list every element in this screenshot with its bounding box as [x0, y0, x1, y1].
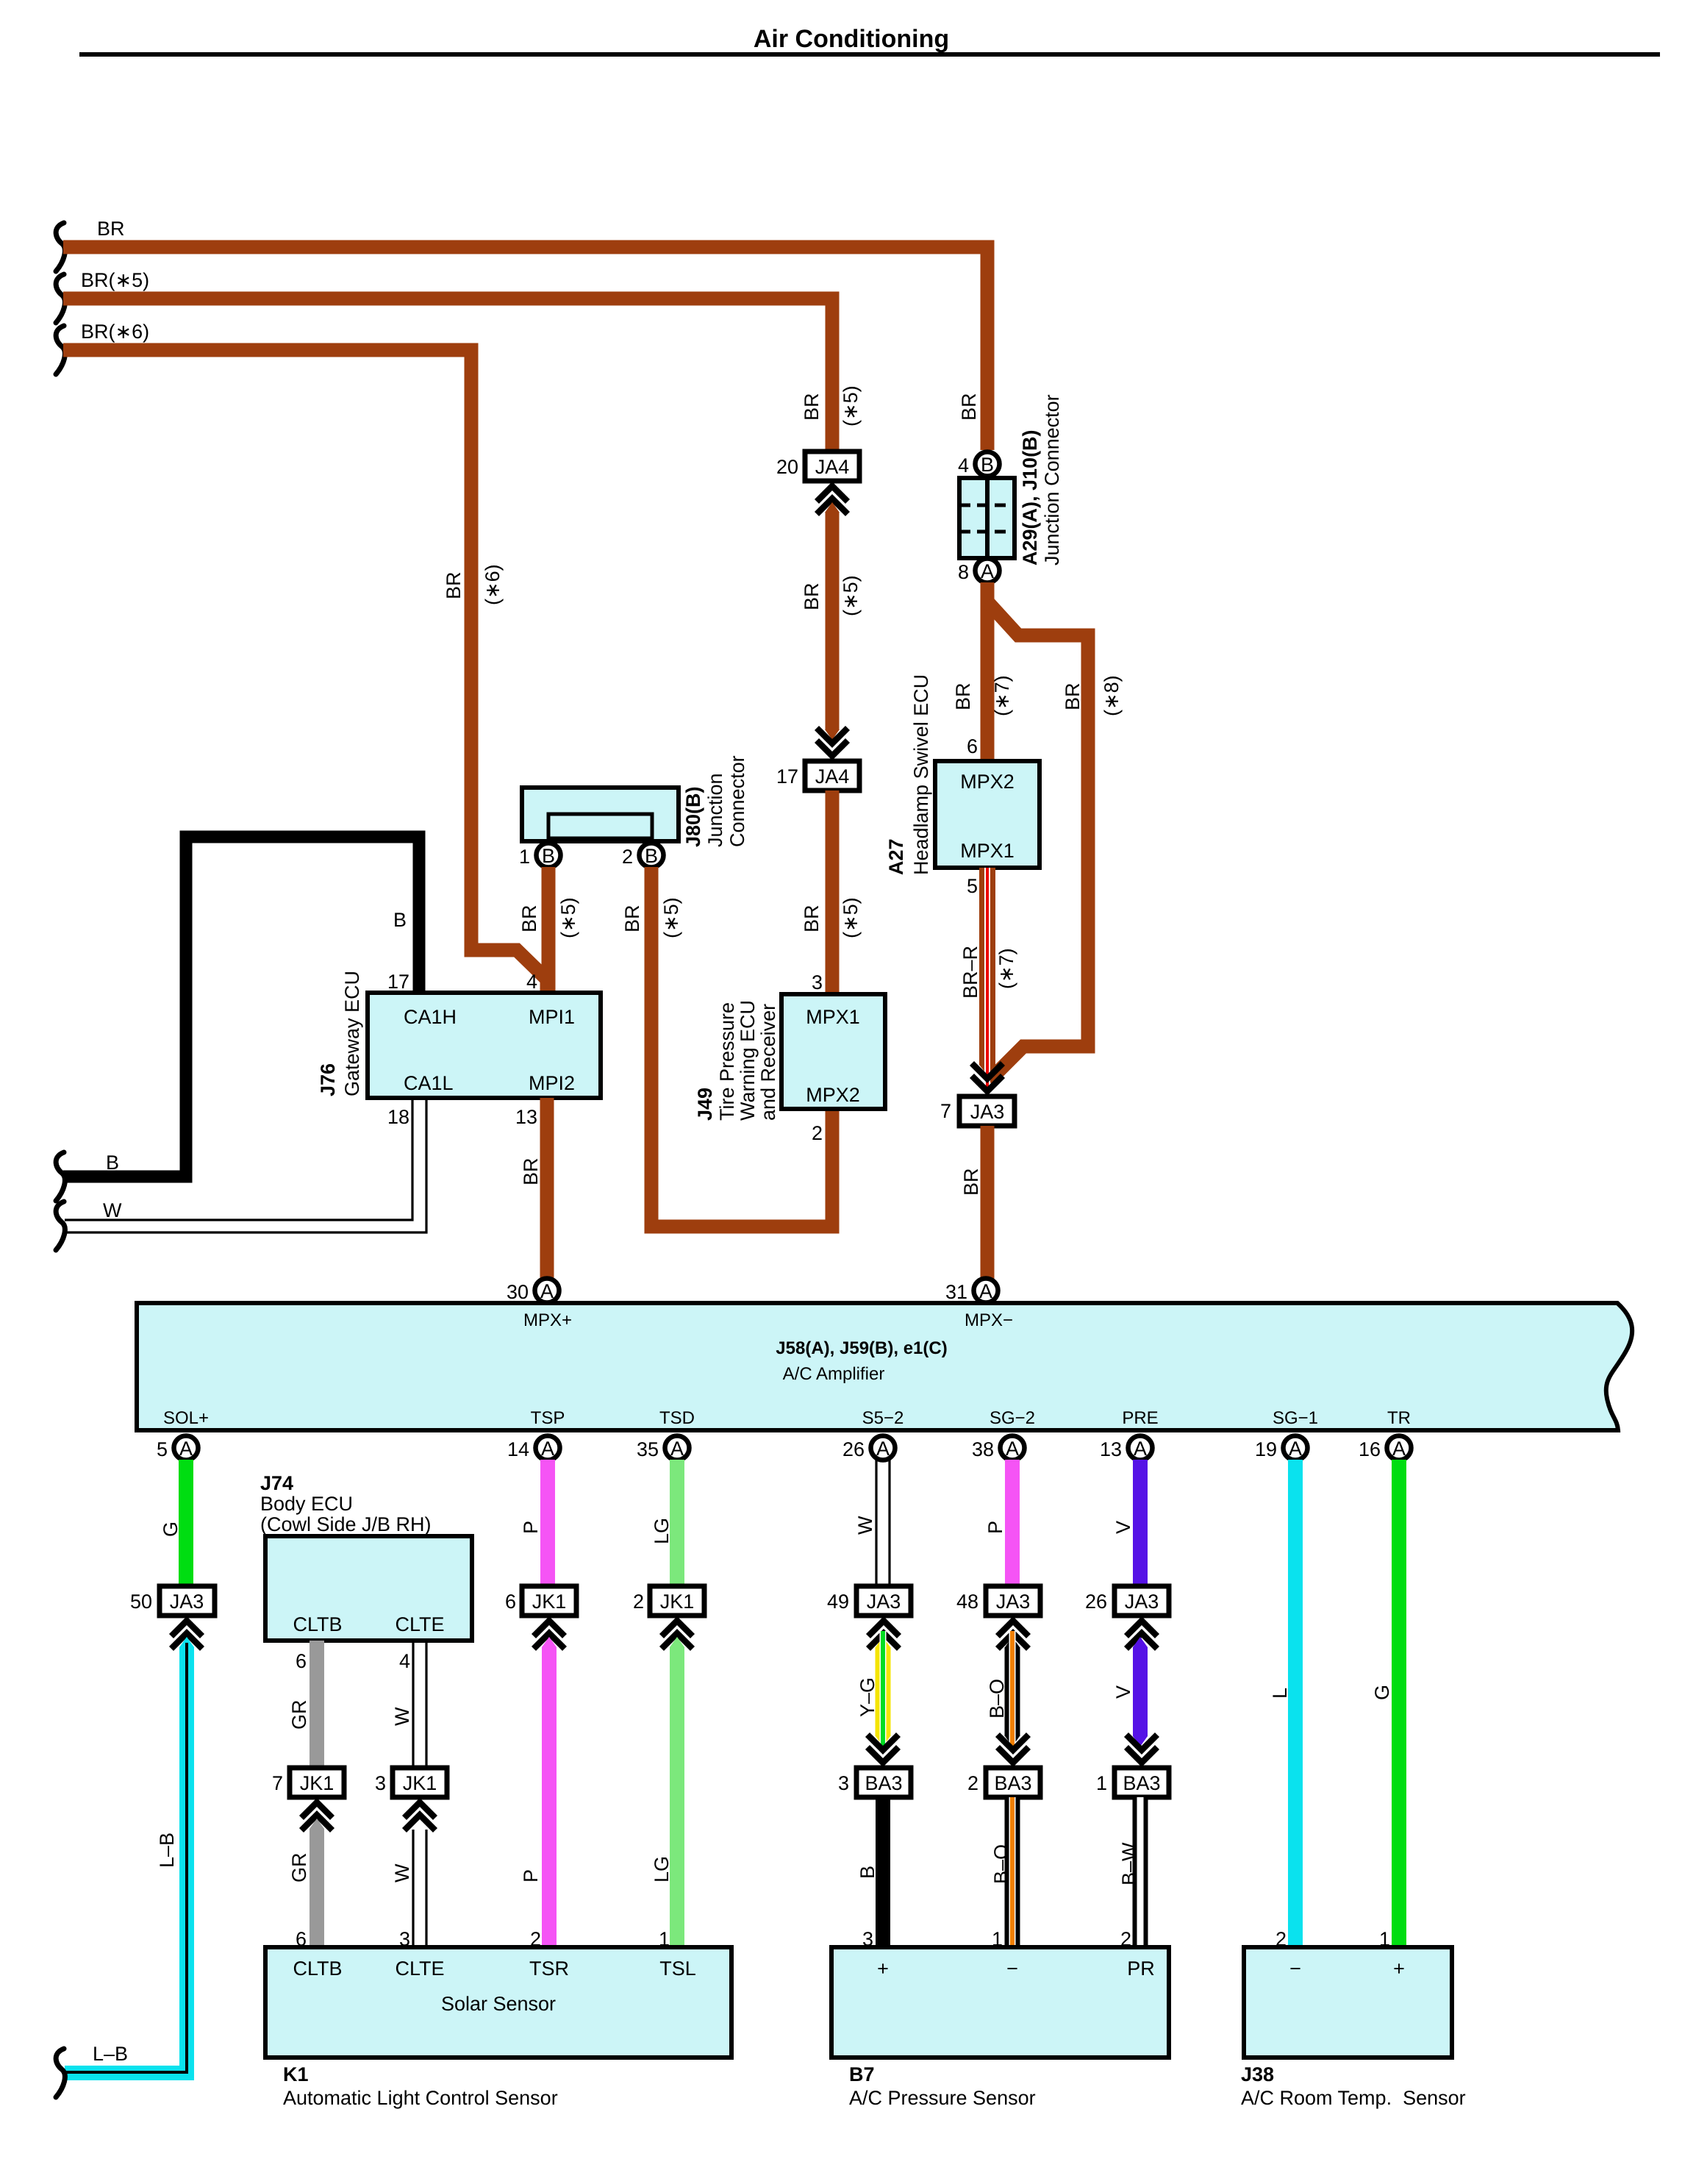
svg-text:A27: A27: [885, 838, 907, 875]
chevron up below JK1 7: [301, 1802, 332, 1830]
svg-text:BR: BR: [518, 904, 540, 932]
svg-text:and Receiver: and Receiver: [757, 1004, 779, 1121]
svg-text:A/C Amplifier: A/C Amplifier: [783, 1364, 885, 1384]
wire BR(*8) bypass loop around A27: [987, 602, 1088, 1081]
svg-text:J80(B): J80(B): [682, 786, 704, 847]
wire P from pin 14A to JK1 6: [540, 1460, 555, 1586]
wire break brace W: [56, 1202, 65, 1250]
chevron up below JA3 50: [171, 1621, 202, 1649]
svg-text:JK1: JK1: [403, 1772, 437, 1794]
svg-text:LG: LG: [651, 1518, 673, 1544]
svg-text:MPX2: MPX2: [806, 1084, 860, 1106]
wire BR(*6) from left joining MPI1 pin 4 wire: [63, 350, 547, 993]
svg-text:4: 4: [958, 454, 969, 477]
svg-text:W: W: [103, 1199, 122, 1221]
wire break brace L-B: [56, 2049, 65, 2097]
svg-text:P: P: [520, 1521, 542, 1534]
svg-text:B–O: B–O: [990, 1844, 1012, 1884]
wire BR from J80 2B down around to J49 MPX2 pin 2: [651, 867, 832, 1227]
svg-text:5: 5: [157, 1438, 168, 1460]
svg-text:A: A: [1392, 1438, 1406, 1460]
chevron up below JK1 6: [534, 1621, 565, 1649]
wire break brace BR(*6): [56, 326, 65, 374]
svg-text:6: 6: [967, 735, 978, 757]
chevron up below JA3 48: [998, 1621, 1028, 1649]
wire G from pin 5A to JA3 50: [179, 1460, 193, 1586]
chevron up below JA3 49: [868, 1621, 899, 1649]
wire break brace B: [56, 1152, 65, 1201]
J80 pin 2 circle B: [640, 843, 664, 868]
svg-text:+: +: [877, 1958, 889, 1980]
svg-text:A: A: [541, 1438, 554, 1460]
ECU J74 Body ECU box: [265, 1536, 472, 1641]
svg-text:(∗7): (∗7): [991, 675, 1013, 716]
svg-text:BR: BR: [952, 682, 974, 710]
wire W from JK1 3 to solar sensor CLTE pin 3: [413, 1830, 426, 1947]
svg-text:P: P: [520, 1869, 542, 1883]
junction connector A29(A) J10(B) pin 4 circle B: [976, 452, 1000, 477]
wire L-B from JA3 50 to left exit: [179, 1637, 194, 1647]
wire BR(*5) from JA4 17 to J49 MPX1 pin 3: [826, 791, 840, 994]
svg-text:6: 6: [505, 1591, 516, 1613]
svg-text:JK1: JK1: [660, 1591, 695, 1613]
svg-text:30: 30: [507, 1281, 529, 1303]
svg-text:2: 2: [622, 846, 633, 868]
wire V from pin 13A to JA3 26: [1133, 1460, 1148, 1586]
svg-text:MPX2: MPX2: [960, 771, 1015, 793]
svg-text:BR: BR: [621, 904, 643, 932]
sensor J38 A/C Room Temp Sensor box: [1244, 1947, 1452, 2058]
svg-text:J74: J74: [260, 1472, 293, 1494]
svg-text:GR: GR: [288, 1853, 310, 1883]
wire W from pin 26A to JA3 49: [876, 1460, 890, 1586]
svg-text:JA3: JA3: [867, 1591, 901, 1613]
svg-text:BR(∗6): BR(∗6): [81, 321, 149, 343]
svg-text:L–B: L–B: [156, 1833, 178, 1868]
svg-text:48: 48: [956, 1591, 978, 1613]
amplifier circle pin 5 A: [174, 1436, 198, 1460]
wire Y-G from JA3 49 to BA3 3: [876, 1637, 890, 1647]
svg-text:Y–G: Y–G: [856, 1677, 879, 1717]
svg-text:B–O: B–O: [986, 1679, 1008, 1719]
wire BR-R from A27 MPX1 pin 5 to JA3 7: [979, 868, 995, 1065]
svg-text:6: 6: [296, 1650, 307, 1672]
svg-text:−: −: [1006, 1958, 1018, 1980]
svg-text:2: 2: [812, 1122, 823, 1144]
svg-text:J49: J49: [694, 1088, 716, 1121]
svg-text:A: A: [979, 1280, 992, 1302]
ECU J49 Tire Pressure Warning ECU box: [781, 994, 885, 1109]
svg-text:BR: BR: [801, 393, 823, 421]
title underline: [79, 52, 1660, 57]
svg-text:G: G: [1371, 1685, 1393, 1700]
svg-text:4: 4: [526, 971, 537, 993]
svg-text:BR–R: BR–R: [959, 946, 981, 999]
wire GR from JK1 7 to solar sensor CLTB pin 6: [309, 1819, 324, 1829]
svg-text:SG−1: SG−1: [1273, 1408, 1318, 1428]
chevron down above BA3 3: [867, 1735, 898, 1763]
svg-text:31: 31: [945, 1281, 967, 1303]
svg-text:V: V: [1112, 1521, 1134, 1534]
svg-text:A/C Pressure Sensor: A/C Pressure Sensor: [849, 2087, 1036, 2109]
svg-text:J58(A), J59(B), e1(C): J58(A), J59(B), e1(C): [776, 1338, 947, 1358]
svg-text:(∗5): (∗5): [840, 575, 862, 616]
chevron down above JA3 7: [972, 1063, 1003, 1091]
svg-text:B: B: [106, 1152, 119, 1174]
svg-text:18: 18: [387, 1106, 409, 1128]
svg-text:1: 1: [1096, 1772, 1107, 1794]
svg-text:JA4: JA4: [815, 766, 850, 788]
A/C Amplifier box J58: [137, 1303, 1632, 1430]
wire break brace BR(*5): [56, 274, 65, 323]
svg-text:JA3: JA3: [996, 1591, 1031, 1613]
svg-text:2: 2: [967, 1772, 978, 1794]
svg-text:2: 2: [633, 1591, 644, 1613]
svg-text:B: B: [393, 909, 407, 931]
svg-text:Gateway ECU: Gateway ECU: [341, 971, 363, 1096]
junction connector A29/J10 pin 8 circle A: [976, 559, 1000, 583]
svg-text:TSP: TSP: [531, 1408, 565, 1428]
wire G from pin 16A to room temp sensor pin 1: [1392, 1460, 1406, 1948]
svg-text:MPX1: MPX1: [806, 1006, 860, 1028]
svg-text:−: −: [1289, 1958, 1301, 1980]
svg-text:+: +: [1393, 1958, 1405, 1980]
svg-text:W: W: [391, 1863, 413, 1883]
svg-text:J76: J76: [317, 1063, 339, 1096]
svg-text:(∗8): (∗8): [1101, 675, 1123, 716]
wire B-W from BA3 1 to pressure sensor pin 2: [1133, 1797, 1148, 1947]
svg-text:B: B: [645, 845, 658, 867]
svg-text:JA3: JA3: [170, 1591, 204, 1613]
svg-text:MPX−: MPX−: [965, 1310, 1013, 1330]
wire BR from J76 MPI2 pin 13 to amplifier pin 30: [540, 1098, 554, 1283]
svg-text:BR: BR: [960, 1168, 982, 1196]
amplifier circle pin 30 A: [535, 1279, 559, 1303]
black wire B from brace to J76 CA1H pin 17: [63, 837, 419, 1177]
svg-text:Warning ECU: Warning ECU: [737, 1000, 759, 1121]
chevron up below JA3 26: [1126, 1621, 1157, 1649]
amplifier circle pin 31 A: [974, 1279, 998, 1303]
svg-text:4: 4: [399, 1650, 410, 1672]
wire L from pin 19A to room temp sensor pin 2: [1288, 1460, 1303, 1948]
ECU J76 Gateway ECU box: [368, 993, 601, 1098]
svg-text:BR: BR: [97, 218, 125, 240]
wire BR(*5) between JA4 20 and JA4 17: [825, 502, 840, 513]
wire BR(*5) from left to junction connector JA4 pin 20: [63, 299, 832, 452]
svg-text:A: A: [179, 1438, 193, 1460]
svg-text:LG: LG: [651, 1856, 673, 1883]
svg-text:A: A: [981, 560, 994, 582]
svg-text:CLTB: CLTB: [293, 1958, 342, 1980]
svg-text:A: A: [1134, 1438, 1147, 1460]
svg-text:3: 3: [812, 971, 823, 993]
svg-text:A: A: [876, 1438, 890, 1460]
ECU A27 Headlamp Swivel ECU box: [935, 761, 1040, 868]
wire LG from JK1 2 to solar sensor TSL pin 1: [670, 1637, 684, 1647]
chevron down above JA4 17: [817, 728, 848, 756]
svg-text:3: 3: [838, 1772, 849, 1794]
junction connector A29/J10 grid box: [959, 478, 1015, 558]
svg-text:Junction: Junction: [704, 773, 726, 847]
svg-text:26: 26: [842, 1438, 865, 1460]
svg-text:1: 1: [519, 846, 530, 868]
wire P from JK1 6 to solar sensor TSR pin 2: [542, 1637, 557, 1647]
sensor B7 A/C Pressure Sensor box: [831, 1947, 1169, 2058]
svg-text:(∗6): (∗6): [482, 564, 504, 605]
svg-text:A: A: [670, 1438, 684, 1460]
svg-text:TSL: TSL: [659, 1958, 696, 1980]
svg-text:7: 7: [272, 1772, 283, 1794]
amplifier circle pin 16 A: [1387, 1436, 1411, 1460]
svg-text:SG−2: SG−2: [990, 1408, 1035, 1428]
svg-text:Headlamp Swivel ECU: Headlamp Swivel ECU: [910, 674, 932, 875]
svg-text:A: A: [1289, 1438, 1302, 1460]
svg-text:BA3: BA3: [1123, 1772, 1160, 1794]
svg-text:K1: K1: [283, 2063, 309, 2085]
svg-text:PRE: PRE: [1122, 1408, 1158, 1428]
wire GR from J74 CLTB to JK1 7: [309, 1641, 324, 1768]
svg-text:BA3: BA3: [865, 1772, 902, 1794]
svg-text:G: G: [160, 1521, 182, 1537]
svg-text:13: 13: [1100, 1438, 1122, 1460]
svg-text:8: 8: [958, 561, 969, 583]
svg-text:17: 17: [776, 766, 798, 788]
svg-text:Solar Sensor: Solar Sensor: [441, 1993, 556, 2015]
svg-text:JA3: JA3: [970, 1101, 1005, 1123]
svg-text:BR: BR: [801, 904, 823, 932]
chevron up below JA4 20: [817, 486, 848, 514]
wire B from BA3 3 to pressure sensor pin 3: [876, 1797, 890, 1947]
wire BR from A29 pin 8A to A27 MPX2 pin 6: [981, 582, 995, 761]
svg-text:14: 14: [507, 1438, 529, 1460]
amplifier circle pin 19 A: [1284, 1436, 1308, 1460]
svg-text:3: 3: [375, 1772, 386, 1794]
svg-text:A: A: [540, 1280, 554, 1302]
svg-text:13: 13: [515, 1106, 537, 1128]
svg-text:Junction Connector: Junction Connector: [1041, 394, 1063, 565]
svg-text:L–B: L–B: [93, 2043, 128, 2065]
wire V from JA3 26 to BA3 1: [1133, 1637, 1148, 1647]
svg-text:JK1: JK1: [532, 1591, 567, 1613]
svg-text:(∗5): (∗5): [840, 897, 862, 938]
svg-text:50: 50: [130, 1591, 152, 1613]
svg-text:A: A: [1006, 1438, 1019, 1460]
svg-text:16: 16: [1359, 1438, 1381, 1460]
svg-text:MPX1: MPX1: [960, 840, 1015, 862]
svg-text:TR: TR: [1387, 1408, 1411, 1428]
svg-text:CLTE: CLTE: [395, 1613, 444, 1635]
wire BR from JA3 7 to amplifier pin 31: [981, 1126, 995, 1283]
svg-text:19: 19: [1255, 1438, 1277, 1460]
amplifier circle pin 26 A: [871, 1436, 895, 1460]
svg-text:(∗7): (∗7): [995, 948, 1017, 989]
svg-text:JA3: JA3: [1125, 1591, 1159, 1613]
svg-text:CLTB: CLTB: [293, 1613, 342, 1635]
svg-text:P: P: [984, 1521, 1006, 1534]
sensor K1 Solar Sensor box: [265, 1947, 731, 2058]
svg-text:(Cowl Side J/B RH): (Cowl Side J/B RH): [260, 1513, 432, 1535]
svg-text:TSR: TSR: [529, 1958, 569, 1980]
svg-text:BR: BR: [443, 571, 465, 599]
svg-text:S5−2: S5−2: [862, 1408, 904, 1428]
svg-text:BA3: BA3: [994, 1772, 1031, 1794]
svg-text:B: B: [856, 1866, 879, 1879]
svg-text:49: 49: [827, 1591, 849, 1613]
svg-text:(∗5): (∗5): [840, 385, 862, 427]
svg-text:5: 5: [967, 875, 978, 897]
amplifier circle pin 14 A: [536, 1436, 560, 1460]
svg-text:PR: PR: [1127, 1958, 1155, 1980]
svg-text:(∗5): (∗5): [660, 897, 682, 938]
svg-text:A29(A), J10(B): A29(A), J10(B): [1019, 429, 1041, 565]
svg-text:Air Conditioning: Air Conditioning: [754, 25, 949, 53]
white wire W from J76 CA1L pin 18 to left exit: [65, 1098, 426, 1232]
svg-text:B: B: [981, 454, 994, 476]
svg-text:GR: GR: [288, 1700, 310, 1730]
svg-text:JK1: JK1: [300, 1772, 334, 1794]
J80 pin 1 circle B: [537, 843, 561, 868]
svg-text:Connector: Connector: [726, 755, 748, 847]
wire B-O from JA3 48 to BA3 2: [1005, 1637, 1020, 1647]
amplifier circle pin 35 A: [665, 1436, 690, 1460]
svg-text:SOL+: SOL+: [163, 1408, 209, 1428]
svg-text:BR: BR: [801, 582, 823, 610]
chevron up below JK1 2: [662, 1621, 693, 1649]
svg-text:B–W: B–W: [1118, 1842, 1140, 1885]
svg-text:V: V: [1112, 1685, 1134, 1699]
wire break brace BR: [56, 223, 65, 271]
svg-text:CA1H: CA1H: [404, 1006, 457, 1028]
svg-text:CA1L: CA1L: [404, 1072, 454, 1094]
svg-text:B: B: [542, 845, 555, 867]
wire B-O from BA3 2 to pressure sensor pin 1: [1005, 1797, 1020, 1947]
junction connector J80(B) box: [522, 788, 679, 841]
svg-text:7: 7: [940, 1100, 951, 1122]
svg-text:Body ECU: Body ECU: [260, 1493, 353, 1515]
svg-text:J38: J38: [1241, 2063, 1274, 2085]
svg-text:MPI2: MPI2: [529, 1072, 575, 1094]
wire BR from left to junction connector A29 pin 4B: [63, 247, 987, 450]
svg-text:W: W: [854, 1516, 876, 1535]
svg-text:BR: BR: [520, 1157, 542, 1185]
svg-text:(∗5): (∗5): [557, 897, 579, 938]
svg-text:38: 38: [972, 1438, 994, 1460]
svg-text:26: 26: [1085, 1591, 1107, 1613]
svg-text:TSD: TSD: [659, 1408, 695, 1428]
svg-text:Automatic Light Control Sensor: Automatic Light Control Sensor: [283, 2087, 558, 2109]
amplifier circle pin 38 A: [1001, 1436, 1025, 1460]
svg-text:B7: B7: [849, 2063, 875, 2085]
svg-text:BR: BR: [958, 393, 980, 421]
svg-text:BR: BR: [1062, 682, 1084, 710]
svg-text:W: W: [391, 1707, 413, 1726]
svg-text:MPX+: MPX+: [523, 1310, 572, 1330]
svg-text:BR(∗5): BR(∗5): [81, 269, 149, 291]
wire LG from pin 35A to JK1 2: [670, 1460, 684, 1586]
svg-text:CLTE: CLTE: [395, 1958, 444, 1980]
wire W from J74 CLTE to JK1 3: [413, 1641, 426, 1768]
wire BR from J80 1B to J76 MPI1 pin 4: [542, 867, 556, 993]
svg-text:A/C Room Temp. Sensor: A/C Room Temp. Sensor: [1241, 2087, 1466, 2109]
svg-text:17: 17: [387, 971, 409, 993]
svg-text:JA4: JA4: [815, 456, 850, 478]
wire P from pin 38A to JA3 48: [1005, 1460, 1020, 1586]
svg-text:Tire Pressure: Tire Pressure: [716, 1002, 738, 1121]
svg-text:35: 35: [637, 1438, 659, 1460]
chevron down above BA3 2: [998, 1735, 1028, 1763]
svg-text:MPI1: MPI1: [529, 1006, 575, 1028]
amplifier circle pin 13 A: [1128, 1436, 1153, 1460]
svg-text:L: L: [1269, 1688, 1291, 1699]
chevron up below JK1 3: [404, 1802, 435, 1830]
chevron down above BA3 1: [1126, 1735, 1157, 1763]
svg-text:20: 20: [776, 456, 798, 478]
